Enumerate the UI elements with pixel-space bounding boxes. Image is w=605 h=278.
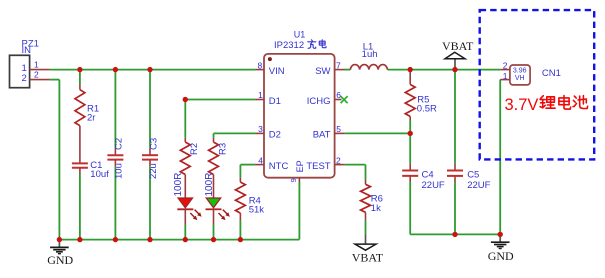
connector CN1 pin1 number	[503, 71, 508, 81]
U1 pin 3 number	[258, 124, 263, 134]
U1 pin 2 number	[336, 155, 341, 165]
svg-text:GND: GND	[47, 253, 73, 267]
svg-text:10u: 10u	[114, 163, 125, 179]
U1 pin 5 BAT stub	[335, 132, 345, 134]
U1 pin 1 D1 stub	[255, 99, 264, 101]
U1 value chong glyph	[308, 40, 316, 49]
U1 pin SW name	[315, 66, 330, 77]
U1 pin1 indicator dot	[268, 57, 272, 61]
svg-text:3.96: 3.96	[513, 68, 527, 75]
wire NTC net	[240, 165, 254, 178]
junction dots top rail	[77, 67, 152, 72]
wire R6 bottom	[365, 220, 367, 234]
U1 value dian glyph	[319, 40, 326, 48]
wire C3 column	[149, 70, 151, 240]
svg-text:R3: R3	[217, 143, 228, 155]
U1 pin 9 EP stub	[298, 178, 300, 182]
svg-text:6: 6	[336, 90, 341, 100]
resistor R3 leads	[213, 138, 215, 198]
U1 pin 7 number	[336, 60, 341, 70]
U1 pin 9 number	[289, 178, 298, 182]
connector PZ1 refdes label	[22, 38, 39, 49]
resistor R6 label	[371, 194, 383, 205]
capacitor C4 value 22UF	[422, 180, 445, 191]
wire LED1 cathode	[184, 225, 186, 240]
resistor R4 value 51k	[249, 205, 265, 216]
svg-text:100R: 100R	[173, 173, 184, 197]
U1 pin BAT name	[313, 130, 331, 141]
connector PZ1 body	[10, 55, 30, 87]
svg-text:9: 9	[289, 178, 298, 182]
wire D2 net	[214, 133, 256, 137]
connector PZ1 pin2 name	[22, 73, 27, 84]
U1 pin D1 name	[269, 96, 281, 107]
resistor R5 label	[417, 95, 429, 106]
resistor R2 leads	[184, 138, 186, 198]
svg-text:TEST: TEST	[306, 161, 330, 172]
capacitor C5	[447, 171, 463, 176]
svg-text:IN: IN	[22, 45, 32, 56]
connector CN1 refdes label	[542, 68, 561, 79]
junction dot BAT/R5/C4	[408, 131, 413, 136]
U1 pin VIN name	[269, 66, 285, 77]
capacitor C2 label	[114, 138, 125, 150]
svg-text:1: 1	[258, 90, 263, 100]
svg-text:3.7V: 3.7V	[505, 96, 539, 114]
wire left GND rail	[59, 239, 299, 241]
connector PZ1 value IN	[22, 45, 32, 56]
LED LED2 green	[206, 198, 230, 225]
resistor R5	[405, 85, 415, 117]
capacitor C3 leads	[149, 148, 151, 167]
capacitor C5 value 22UF	[467, 180, 490, 191]
wire SW to L1	[345, 69, 351, 71]
svg-text:5: 5	[336, 124, 341, 134]
wire PZ1 pin2 to GND rail	[50, 80, 60, 240]
svg-text:2: 2	[34, 70, 39, 80]
svg-text:C5: C5	[467, 169, 479, 180]
svg-text:2r: 2r	[87, 112, 95, 123]
op-amp U1 IP2312 body	[264, 54, 335, 178]
U1 pin ICHG name	[307, 96, 331, 107]
svg-text:GND: GND	[488, 249, 514, 263]
wire C4 column	[409, 133, 411, 234]
capacitor C3 value 22u	[148, 163, 159, 179]
svg-text:VBAT: VBAT	[442, 39, 474, 53]
capacitor C1 value 10uf	[90, 169, 109, 180]
svg-text:VH: VH	[515, 75, 525, 82]
svg-text:VIN: VIN	[269, 66, 285, 77]
svg-text:22UF: 22UF	[467, 180, 490, 191]
resistor R1	[75, 90, 85, 126]
capacitor C5 label	[467, 169, 479, 180]
svg-text:22u: 22u	[148, 163, 159, 179]
wire CN1 pin1 to GND	[499, 80, 501, 235]
connector CN1 pin1 stub	[500, 79, 510, 81]
resistor R6 value 1k	[371, 203, 381, 214]
connector PZ1 pin2 stub	[30, 79, 50, 81]
svg-text:4: 4	[258, 155, 263, 165]
resistor R1 value 2r	[87, 112, 95, 123]
resistor R3 label	[217, 143, 228, 155]
battery text chi glyph	[573, 96, 588, 109]
wire BAT net	[344, 132, 410, 134]
junction dot R5 top	[408, 67, 413, 72]
ground GND right	[488, 234, 514, 262]
svg-text:U1: U1	[294, 30, 306, 40]
resistor R1 leads	[79, 84, 81, 163]
resistor R1 label	[87, 104, 99, 115]
capacitor C2 leads	[114, 148, 116, 167]
battery text li glyph	[540, 96, 555, 109]
capacitor C1	[72, 163, 88, 174]
resistor R4	[235, 182, 245, 213]
connector CN1 value 3.96	[513, 68, 527, 75]
capacitor C5 leads	[454, 164, 456, 182]
resistor R5 value 0.5R	[417, 104, 437, 115]
U1 pin 4 number	[258, 155, 263, 165]
U1 pin 7 SW stub	[335, 69, 345, 71]
svg-text:2: 2	[22, 73, 27, 84]
wire right GND rail	[410, 233, 500, 235]
svg-text:CN1: CN1	[542, 68, 561, 79]
junction dot D1/R2	[183, 97, 188, 102]
resistor R2	[180, 142, 190, 174]
capacitor C4 label	[422, 169, 434, 180]
svg-text:EP: EP	[295, 160, 305, 172]
resistor R2 value 100R	[173, 173, 184, 197]
wire L1 to CN1 pin2	[387, 69, 500, 71]
U1 pin 8 VIN stub	[255, 69, 264, 71]
U1 pin EP name	[295, 160, 305, 172]
svg-text:C3: C3	[148, 138, 159, 150]
junction dot VBAT node	[452, 67, 457, 72]
svg-text:8: 8	[257, 60, 262, 70]
ground GND left	[47, 240, 73, 268]
svg-text:10uf: 10uf	[90, 169, 109, 180]
svg-text:D2: D2	[269, 130, 281, 141]
U1 pin TEST name	[306, 161, 330, 172]
svg-text:0.5R: 0.5R	[417, 104, 437, 115]
resistor R4 label	[249, 196, 261, 207]
battery text dian glyph	[559, 96, 571, 110]
svg-text:C2: C2	[114, 138, 125, 150]
wire EP stub down to rail	[298, 182, 300, 240]
capacitor C3 label	[148, 138, 159, 150]
junction dots left GND rail	[57, 237, 243, 242]
power flag VBAT top	[442, 39, 474, 70]
battery dashed outline box	[480, 10, 595, 159]
U1 pin 8 number	[257, 60, 262, 70]
connector CN1 pin2 number	[503, 61, 508, 71]
connector PZ1 pin1 number	[34, 59, 39, 69]
no-connect X on pin 6	[341, 96, 348, 103]
svg-text:VBAT: VBAT	[352, 250, 384, 264]
svg-text:3: 3	[258, 124, 263, 134]
connector PZ1 pin1 name	[22, 63, 27, 74]
svg-text:SW: SW	[315, 66, 330, 77]
svg-text:BAT: BAT	[313, 130, 331, 141]
wire R1 top	[79, 70, 81, 84]
U1 pin D2 name	[269, 130, 281, 141]
svg-text:ICHG: ICHG	[307, 96, 331, 107]
inductor L1 value 1uh	[362, 49, 378, 60]
capacitor C1 label	[90, 160, 102, 171]
wire R4 bottom	[239, 220, 241, 239]
wire VBAT column C5	[454, 70, 456, 235]
svg-text:7: 7	[336, 60, 341, 70]
svg-text:R2: R2	[189, 143, 200, 155]
svg-text:1: 1	[34, 59, 39, 69]
connector PZ1 pin1 stub	[30, 69, 50, 71]
svg-text:1: 1	[503, 71, 508, 81]
U1 pin NTC name	[269, 161, 289, 172]
junction dots right GND rail	[452, 232, 503, 237]
wire C2 column	[114, 70, 116, 240]
svg-text:IP2312: IP2312	[274, 40, 304, 51]
capacitor C2	[107, 155, 123, 159]
U1 refdes label	[294, 30, 306, 40]
U1 value IP2312	[274, 40, 304, 51]
resistor R4 leads	[239, 178, 241, 221]
wire VIN net top rail	[50, 69, 256, 71]
svg-text:22UF: 22UF	[422, 180, 445, 191]
capacitor C3	[142, 155, 158, 159]
U1 pin 4 NTC stub	[255, 164, 264, 166]
svg-text:NTC: NTC	[269, 161, 289, 172]
connector CN1 pin2 stub	[500, 69, 510, 71]
resistor R3 value 100R	[204, 173, 215, 197]
svg-text:C4: C4	[422, 169, 434, 180]
U1 pin 1 number	[258, 90, 263, 100]
U1 pin 6 number	[336, 90, 341, 100]
wire R5 bottom to BAT net	[409, 120, 411, 133]
resistor R3	[209, 142, 219, 174]
U1 pin 5 number	[336, 124, 341, 134]
battery text 3.7V	[505, 96, 539, 114]
svg-text:D1: D1	[269, 96, 281, 107]
inductor L1	[350, 65, 387, 70]
U1 pin 6 ICHG stub	[335, 99, 342, 101]
U1 pin 3 D2 stub	[255, 132, 264, 134]
svg-text:2: 2	[336, 155, 341, 165]
capacitor C4 leads	[409, 164, 411, 182]
inductor L1 label	[363, 41, 374, 52]
svg-text:1k: 1k	[371, 203, 381, 214]
power flag VBAT bottom	[352, 234, 384, 264]
wire D1 net	[185, 100, 255, 138]
capacitor C4	[402, 171, 418, 176]
resistor R6	[361, 184, 371, 212]
U1 pin 2 TEST stub	[335, 164, 345, 166]
connector CN1 value VH	[515, 75, 525, 82]
connector PZ1 pin2 number	[34, 70, 39, 80]
resistor R2 label	[189, 143, 200, 155]
svg-text:100R: 100R	[204, 173, 215, 197]
capacitor C2 value 10u	[114, 163, 125, 179]
svg-text:51k: 51k	[249, 205, 265, 216]
connector CN1 body	[510, 65, 530, 85]
wire C1 bottom	[79, 174, 81, 240]
wire TEST net	[344, 165, 365, 180]
LED LED1 red	[177, 198, 201, 225]
svg-text:2: 2	[503, 61, 508, 71]
svg-text:1uh: 1uh	[362, 49, 378, 60]
resistor R6 leads	[365, 179, 367, 220]
wire LED2 cathode	[213, 225, 215, 240]
resistor R5 leads	[409, 70, 411, 120]
